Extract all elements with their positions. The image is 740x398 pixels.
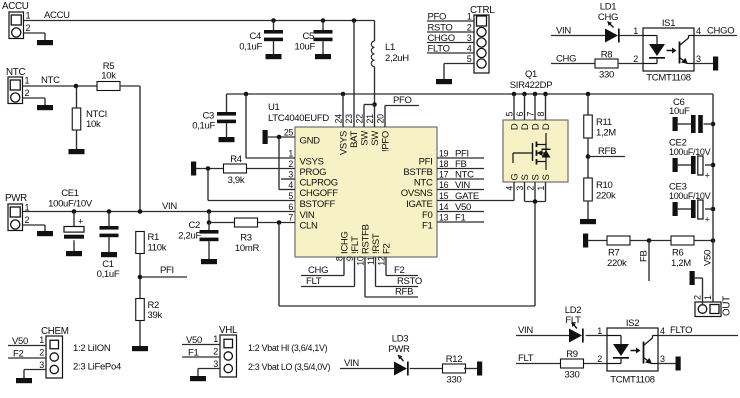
svg-text:12: 12 [377, 256, 387, 266]
svg-text:+: + [78, 217, 83, 227]
svg-text:4: 4 [505, 186, 515, 191]
svg-text:VSYS: VSYS [300, 157, 324, 168]
svg-text:8: 8 [536, 112, 546, 117]
svg-text:18: 18 [439, 159, 449, 169]
svg-text:16: 16 [439, 180, 449, 190]
svg-text:2: 2 [25, 215, 30, 225]
svg-text:R11: R11 [596, 117, 612, 128]
svg-text:1,2M: 1,2M [671, 258, 691, 269]
svg-text:NTC: NTC [41, 75, 60, 86]
svg-text:C4: C4 [249, 31, 261, 42]
svg-text:2,2uH: 2,2uH [385, 53, 409, 64]
svg-text:CE1: CE1 [61, 188, 79, 199]
svg-text:LTC4040EUFD: LTC4040EUFD [268, 113, 329, 124]
svg-text:+: + [705, 215, 710, 225]
svg-text:CHGO: CHGO [428, 33, 455, 44]
svg-text:2: 2 [213, 347, 218, 357]
svg-text:22: 22 [355, 114, 365, 124]
svg-text:6: 6 [515, 112, 525, 117]
svg-text:10uF: 10uF [669, 106, 690, 117]
svg-text:ICHG: ICHG [340, 231, 351, 254]
svg-text:FB: FB [639, 250, 650, 262]
svg-text:+: + [705, 171, 710, 181]
svg-text:VSYS: VSYS [339, 131, 350, 155]
svg-text:BSTFB: BSTFB [403, 167, 432, 178]
svg-text:CHGOFF: CHGOFF [300, 188, 339, 199]
svg-text:S: S [520, 174, 531, 180]
svg-text:15: 15 [439, 191, 449, 201]
svg-text:100uF/10V: 100uF/10V [48, 199, 93, 210]
svg-text:V50: V50 [703, 250, 714, 266]
svg-text:10mR: 10mR [235, 243, 260, 254]
svg-text:IS1: IS1 [662, 18, 675, 29]
svg-text:VIN: VIN [344, 358, 359, 369]
svg-text:S: S [531, 174, 542, 180]
svg-text:RSTO: RSTO [397, 276, 422, 287]
svg-text:FLT: FLT [518, 353, 534, 364]
svg-text:11: 11 [366, 256, 376, 265]
svg-text:3: 3 [288, 170, 293, 180]
svg-text:110k: 110k [148, 243, 167, 254]
svg-text:2: 2 [288, 159, 293, 169]
svg-text:SIR422DP: SIR422DP [510, 80, 552, 91]
svg-text:0,1uF: 0,1uF [192, 121, 215, 132]
svg-text:1:2 Vbat HI (3,6/4,1V): 1:2 Vbat HI (3,6/4,1V) [248, 343, 328, 353]
svg-text:1: 1 [467, 12, 472, 22]
svg-text:R6: R6 [672, 248, 684, 259]
svg-text:2: 2 [526, 186, 536, 191]
svg-text:0,1uF: 0,1uF [97, 269, 120, 280]
svg-text:13: 13 [439, 213, 449, 223]
svg-text:!RST: !RST [371, 233, 382, 254]
svg-text:2: 2 [26, 23, 31, 33]
svg-text:2,2uF: 2,2uF [178, 231, 201, 242]
svg-text:3: 3 [467, 33, 472, 43]
svg-text:RSTFB: RSTFB [361, 224, 372, 254]
svg-text:TCMT1108: TCMT1108 [646, 73, 690, 84]
svg-text:IS2: IS2 [626, 318, 639, 329]
svg-text:3: 3 [515, 186, 525, 191]
svg-text:F0: F0 [422, 210, 433, 221]
svg-text:220k: 220k [596, 191, 616, 202]
svg-text:VIN: VIN [162, 201, 177, 212]
svg-text:1,2M: 1,2M [596, 128, 616, 139]
svg-text:24: 24 [334, 114, 344, 124]
svg-text:10k: 10k [101, 71, 116, 82]
svg-text:R1: R1 [148, 232, 160, 243]
svg-text:VIN: VIN [300, 210, 315, 221]
svg-text:OVSNS: OVSNS [401, 188, 433, 199]
svg-text:BAT: BAT [349, 131, 360, 148]
svg-text:RSTO: RSTO [428, 23, 453, 34]
svg-text:2: 2 [597, 354, 602, 364]
svg-text:CLPROG: CLPROG [300, 178, 338, 189]
svg-text:100uF/10V: 100uF/10V [669, 147, 711, 157]
svg-text:SW: SW [370, 131, 381, 146]
svg-text:CTRL: CTRL [470, 5, 495, 16]
svg-text:R4: R4 [230, 154, 242, 165]
svg-text:10: 10 [356, 256, 366, 266]
svg-text:7: 7 [526, 112, 536, 117]
svg-text:PROG: PROG [300, 167, 327, 178]
svg-text:CHGO: CHGO [707, 26, 734, 37]
svg-text:BSTOFF: BSTOFF [300, 199, 336, 210]
svg-text:4: 4 [467, 44, 472, 54]
svg-text:PFO: PFO [393, 95, 412, 106]
svg-text:D: D [520, 123, 531, 130]
svg-text:SW: SW [360, 131, 371, 146]
svg-text:C5: C5 [302, 31, 314, 42]
svg-text:19: 19 [439, 149, 449, 159]
svg-text:2: 2 [467, 23, 472, 33]
svg-text:1: 1 [703, 295, 713, 300]
svg-text:6: 6 [288, 202, 293, 212]
svg-text:1: 1 [288, 149, 293, 159]
svg-text:100uF/10V: 100uF/10V [669, 191, 711, 201]
svg-text:F2: F2 [382, 243, 393, 254]
svg-text:10k: 10k [86, 119, 101, 130]
svg-text:21: 21 [365, 114, 375, 124]
svg-text:330: 330 [447, 375, 462, 386]
svg-text:S: S [541, 174, 552, 180]
svg-text:2:3 Vbat LO (3,5/4,0V): 2:3 Vbat LO (3,5/4,0V) [248, 362, 331, 372]
svg-text:1: 1 [26, 11, 31, 21]
svg-text:3: 3 [39, 360, 44, 370]
svg-text:4: 4 [660, 326, 665, 336]
svg-text:3,9k: 3,9k [228, 175, 245, 186]
svg-text:GND: GND [300, 136, 321, 147]
svg-text:14: 14 [439, 202, 449, 212]
svg-text:OUT: OUT [722, 296, 733, 316]
svg-text:CLN: CLN [300, 221, 319, 232]
svg-text:CHG: CHG [308, 265, 328, 276]
svg-text:PWR: PWR [388, 344, 410, 355]
svg-text:220k: 220k [607, 258, 627, 269]
svg-text:0,1uF: 0,1uF [239, 42, 262, 53]
svg-text:VHL: VHL [219, 325, 238, 336]
svg-text:D: D [531, 123, 542, 130]
svg-text:7: 7 [288, 213, 293, 223]
svg-text:R7: R7 [608, 248, 620, 259]
svg-text:1:2 LiION: 1:2 LiION [73, 343, 111, 354]
svg-text:CHEM: CHEM [41, 326, 69, 337]
svg-text:1: 1 [597, 326, 602, 336]
svg-text:ACCU: ACCU [44, 10, 70, 21]
svg-text:PFO: PFO [428, 12, 447, 23]
svg-text:330: 330 [565, 370, 580, 381]
svg-text:5: 5 [288, 191, 293, 201]
svg-text:FLTO: FLTO [428, 44, 450, 55]
svg-text:2:3 LiFePo4: 2:3 LiFePo4 [73, 362, 121, 373]
svg-text:R8: R8 [601, 50, 613, 61]
svg-text:1: 1 [633, 26, 638, 36]
svg-text:D: D [510, 123, 521, 130]
svg-text:PFI: PFI [160, 265, 174, 276]
svg-text:R9: R9 [566, 349, 578, 360]
svg-text:23: 23 [344, 114, 354, 124]
svg-text:10uF: 10uF [295, 42, 316, 53]
svg-text:L1: L1 [385, 42, 395, 53]
svg-text:!PFO: !PFO [381, 131, 392, 152]
svg-text:C2: C2 [188, 220, 200, 231]
svg-text:330: 330 [599, 70, 614, 81]
svg-text:39k: 39k [148, 310, 163, 321]
svg-text:F2: F2 [394, 265, 405, 276]
svg-text:FLTO: FLTO [670, 325, 692, 336]
svg-text:17: 17 [439, 170, 449, 180]
svg-text:U1: U1 [268, 102, 280, 113]
svg-text:!FLT: !FLT [350, 236, 361, 254]
svg-text:R12: R12 [446, 354, 463, 365]
svg-text:4: 4 [696, 26, 701, 36]
svg-text:9: 9 [345, 256, 355, 261]
svg-text:NTC: NTC [414, 178, 433, 189]
svg-text:G: G [510, 173, 521, 180]
svg-text:3: 3 [213, 359, 218, 369]
svg-text:LD1: LD1 [600, 2, 617, 13]
svg-text:2: 2 [25, 88, 30, 98]
svg-text:PFI: PFI [419, 157, 433, 168]
svg-text:1: 1 [25, 76, 30, 86]
svg-text:25: 25 [284, 128, 294, 138]
svg-text:4: 4 [288, 180, 293, 190]
svg-text:5: 5 [467, 54, 472, 64]
svg-text:LD3: LD3 [392, 334, 409, 345]
svg-text:20: 20 [376, 114, 386, 124]
svg-text:RFB: RFB [395, 287, 413, 298]
svg-text:1: 1 [39, 335, 44, 345]
svg-text:D: D [541, 123, 552, 130]
svg-text:FLT: FLT [306, 276, 322, 287]
svg-text:2: 2 [693, 295, 703, 300]
svg-text:3: 3 [696, 54, 701, 64]
svg-text:Q1: Q1 [525, 69, 537, 80]
svg-text:NTC: NTC [6, 67, 25, 78]
svg-text:2: 2 [633, 54, 638, 64]
svg-text:1: 1 [536, 186, 546, 191]
svg-text:VIN: VIN [518, 325, 533, 336]
svg-text:TCMT1108: TCMT1108 [610, 375, 654, 386]
svg-text:IGATE: IGATE [406, 199, 432, 210]
svg-text:8: 8 [335, 256, 345, 261]
svg-text:1: 1 [213, 334, 218, 344]
svg-text:R10: R10 [596, 180, 613, 191]
svg-text:RFB: RFB [598, 146, 616, 157]
svg-text:5: 5 [505, 112, 515, 117]
svg-text:2: 2 [39, 348, 44, 358]
svg-text:R3: R3 [240, 233, 252, 244]
svg-text:F1: F1 [422, 221, 433, 232]
svg-text:VIN: VIN [556, 26, 571, 37]
svg-text:3: 3 [660, 354, 665, 364]
